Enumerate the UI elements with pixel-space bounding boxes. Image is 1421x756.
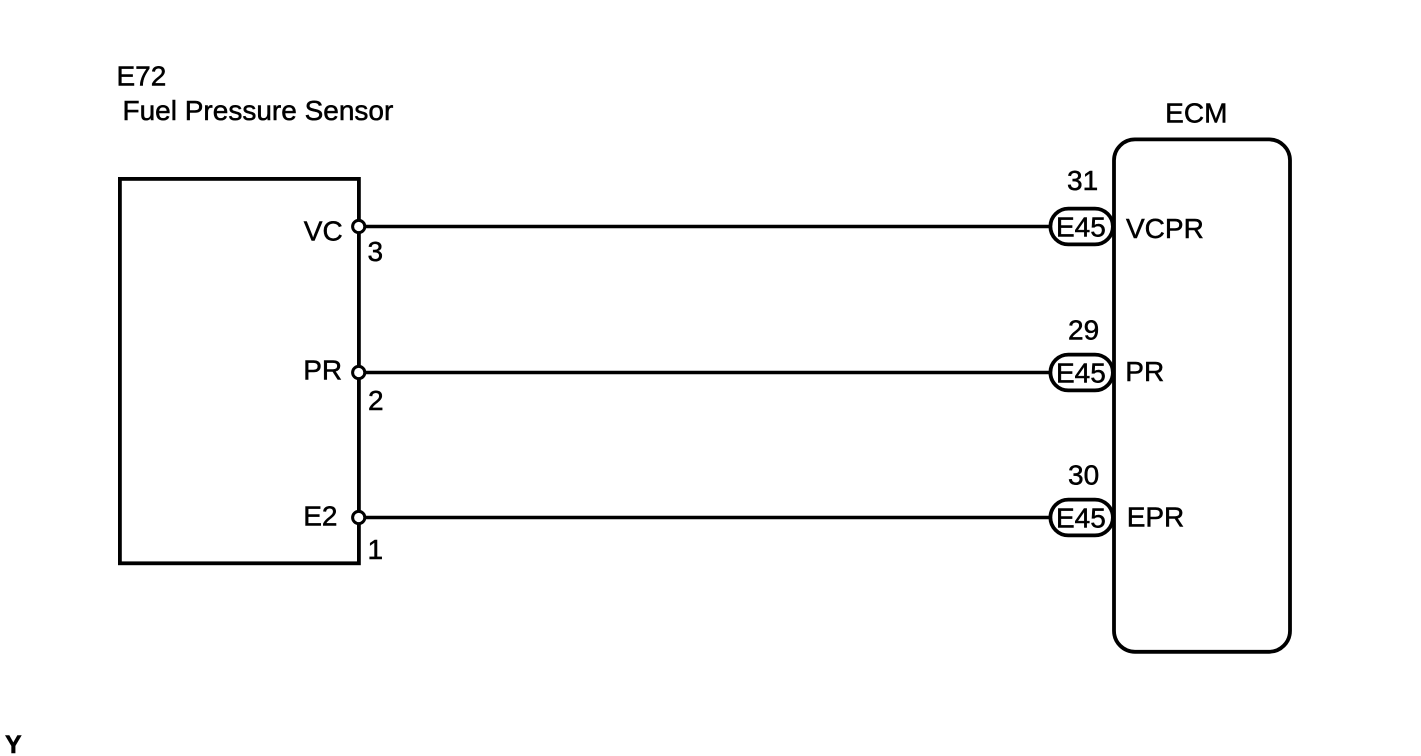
terminal circle E2 (pin 1) bbox=[353, 511, 365, 523]
ECM box bbox=[1114, 139, 1290, 651]
wire PR to E45 pin 29 bbox=[359, 371, 1052, 375]
svg-text:E2: E2 bbox=[303, 501, 337, 532]
svg-text:PR: PR bbox=[303, 354, 342, 385]
svg-text:E45: E45 bbox=[1056, 358, 1106, 389]
svg-text:31: 31 bbox=[1067, 165, 1098, 196]
svg-text:2: 2 bbox=[368, 385, 384, 416]
svg-text:VC: VC bbox=[304, 216, 343, 247]
svg-text:E45: E45 bbox=[1056, 212, 1106, 243]
svg-text:E45: E45 bbox=[1056, 503, 1106, 534]
terminal circle VC (pin 3) bbox=[353, 220, 365, 232]
svg-text:30: 30 bbox=[1068, 460, 1099, 491]
svg-text:E72: E72 bbox=[117, 61, 167, 92]
terminal circle PR (pin 2) bbox=[353, 366, 365, 378]
svg-text:Y: Y bbox=[5, 731, 22, 756]
wire VC to E45 pin 31 bbox=[359, 225, 1052, 229]
sensor box E72 Fuel Pressure Sensor bbox=[120, 179, 359, 563]
connector oval E45 pin 29 bbox=[1050, 355, 1113, 391]
svg-text:3: 3 bbox=[368, 236, 384, 267]
svg-text:Fuel Pressure Sensor: Fuel Pressure Sensor bbox=[123, 95, 394, 126]
svg-text:PR: PR bbox=[1125, 356, 1164, 387]
svg-text:VCPR: VCPR bbox=[1126, 213, 1204, 244]
svg-text:EPR: EPR bbox=[1127, 502, 1185, 533]
svg-text:ECM: ECM bbox=[1165, 97, 1227, 128]
connector oval E45 pin 30 bbox=[1050, 500, 1113, 536]
svg-text:29: 29 bbox=[1068, 315, 1099, 346]
connector oval E45 pin 31 bbox=[1050, 209, 1113, 245]
svg-text:1: 1 bbox=[368, 534, 384, 565]
wire E2 to E45 pin 30 bbox=[359, 516, 1052, 520]
